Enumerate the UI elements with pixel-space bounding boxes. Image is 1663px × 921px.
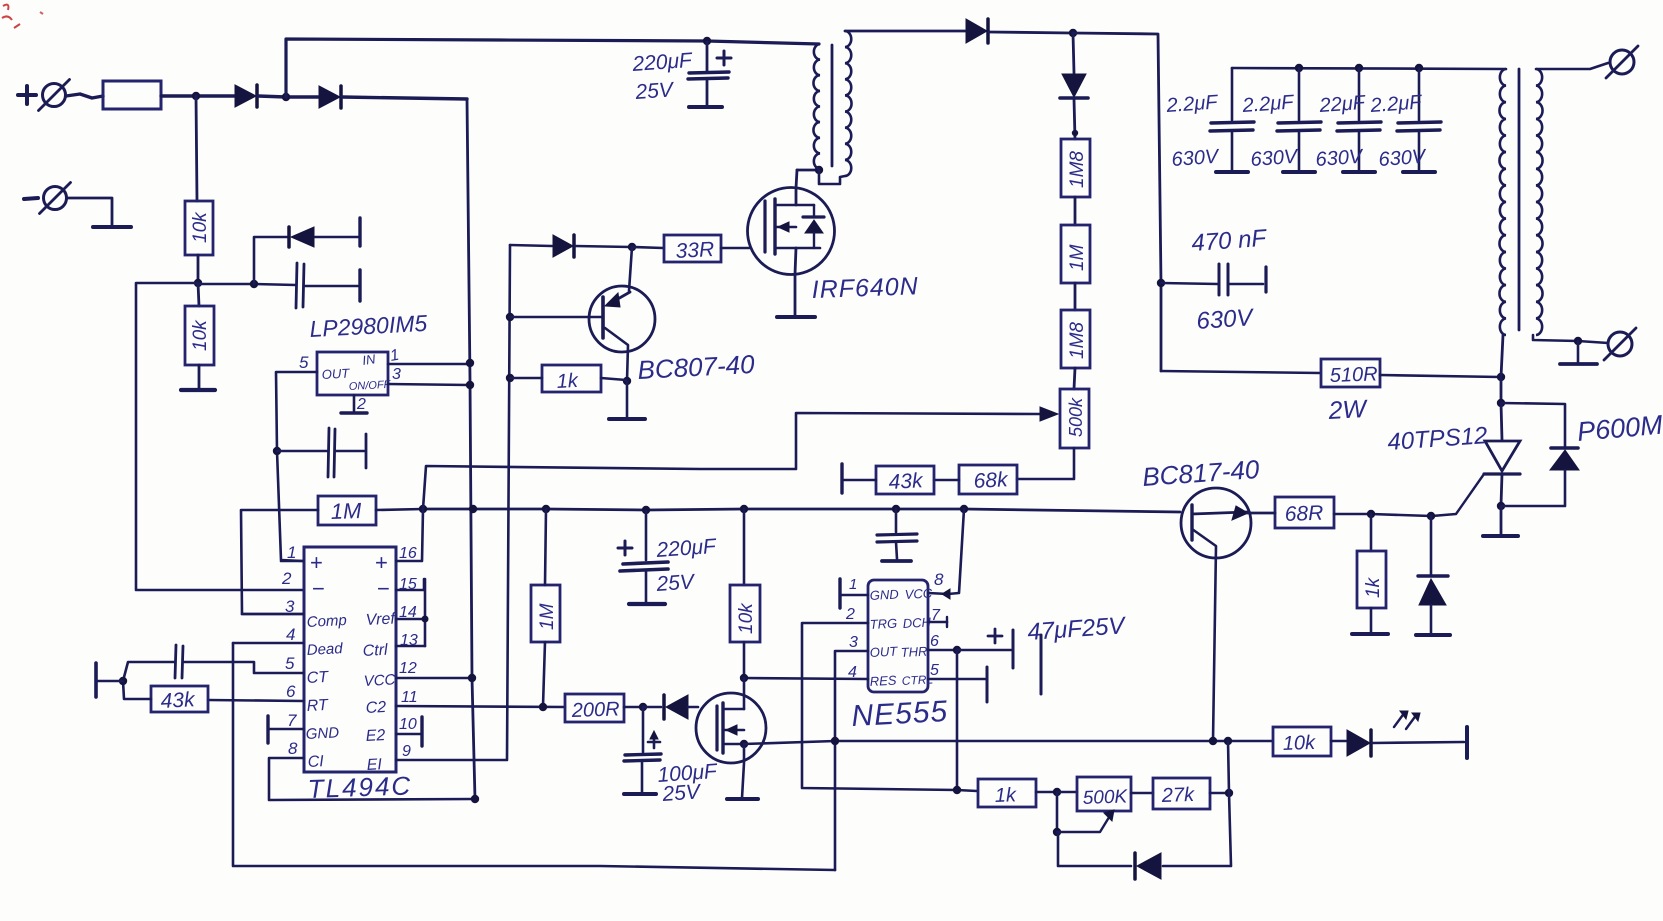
svg-text:VCC: VCC — [363, 671, 396, 690]
svg-text:10k: 10k — [190, 319, 211, 351]
svg-text:5: 5 — [299, 353, 309, 372]
svg-text:43k: 43k — [888, 469, 925, 494]
svg-text:10: 10 — [399, 716, 417, 733]
svg-text:500K: 500K — [1082, 786, 1128, 809]
svg-text:220μF: 220μF — [655, 535, 718, 562]
svg-text:470 nF: 470 nF — [1191, 225, 1269, 257]
svg-text:Dead: Dead — [306, 640, 343, 659]
svg-text:CI: CI — [307, 753, 324, 771]
svg-text:5: 5 — [285, 654, 295, 673]
svg-text:2: 2 — [356, 396, 366, 413]
svg-text:11: 11 — [401, 689, 418, 706]
svg-text:3: 3 — [392, 366, 401, 383]
svg-text:25V: 25V — [655, 570, 697, 596]
svg-text:630V: 630V — [1315, 146, 1365, 171]
svg-text:−: − — [312, 576, 325, 601]
svg-text:2.2μF: 2.2μF — [1165, 91, 1220, 117]
svg-text:CT: CT — [306, 669, 329, 687]
svg-text:25V: 25V — [661, 780, 703, 806]
svg-text:E2: E2 — [365, 727, 386, 745]
svg-text:1M8: 1M8 — [1067, 322, 1088, 359]
svg-text:6: 6 — [930, 633, 939, 650]
svg-text:2W: 2W — [1327, 395, 1369, 425]
svg-text:1k: 1k — [556, 370, 579, 393]
svg-text:IRF640N: IRF640N — [811, 272, 919, 304]
svg-text:TRG: TRG — [869, 616, 897, 632]
svg-text:OUT: OUT — [321, 366, 350, 382]
svg-text:1: 1 — [287, 543, 296, 562]
svg-text:GND: GND — [869, 587, 899, 603]
svg-text:15: 15 — [399, 576, 417, 593]
svg-text:12: 12 — [399, 660, 417, 677]
svg-text:630V: 630V — [1378, 146, 1428, 171]
svg-text:25V: 25V — [634, 78, 676, 104]
svg-text:220μF: 220μF — [631, 49, 694, 76]
svg-text:ON/OFF: ON/OFF — [349, 379, 392, 393]
svg-text:Ctrl: Ctrl — [362, 642, 388, 660]
svg-text:43k: 43k — [160, 688, 197, 713]
svg-text:OUT: OUT — [869, 644, 898, 660]
svg-text:33R: 33R — [675, 238, 715, 263]
svg-text:BC807-40: BC807-40 — [637, 349, 756, 385]
svg-text:510R: 510R — [1329, 363, 1378, 387]
svg-text:+: + — [375, 550, 388, 575]
svg-text:RT: RT — [306, 697, 329, 715]
svg-text:68R: 68R — [1284, 502, 1323, 526]
svg-text:8: 8 — [934, 570, 944, 589]
svg-text:13: 13 — [400, 632, 418, 649]
svg-text:500k: 500k — [1066, 397, 1086, 437]
svg-text:2.2μF: 2.2μF — [1369, 91, 1424, 117]
svg-text:THR: THR — [900, 644, 927, 660]
svg-text:1M8: 1M8 — [1067, 151, 1088, 188]
svg-text:7: 7 — [287, 711, 297, 730]
svg-text:3: 3 — [849, 634, 858, 651]
svg-text:630V: 630V — [1250, 146, 1300, 171]
svg-text:22μF: 22μF — [1318, 92, 1368, 117]
svg-text:NE555: NE555 — [851, 695, 949, 733]
svg-text:6: 6 — [286, 682, 296, 701]
svg-text:9: 9 — [402, 743, 411, 760]
svg-text:68k: 68k — [973, 468, 1010, 493]
svg-text:1k: 1k — [1363, 576, 1384, 598]
svg-text:GND: GND — [305, 724, 339, 743]
svg-text:Vref: Vref — [365, 610, 396, 629]
svg-text:2: 2 — [281, 569, 292, 588]
svg-text:+: + — [310, 550, 323, 575]
svg-text:RES: RES — [869, 673, 897, 689]
svg-text:3: 3 — [285, 597, 295, 616]
svg-text:5: 5 — [930, 662, 939, 679]
svg-text:1M: 1M — [1067, 244, 1088, 271]
svg-text:1: 1 — [849, 576, 857, 593]
svg-text:10k: 10k — [1282, 732, 1316, 755]
svg-text:630V: 630V — [1196, 304, 1256, 335]
svg-text:1M: 1M — [330, 498, 362, 524]
svg-text:4: 4 — [286, 625, 295, 644]
svg-text:630V: 630V — [1171, 146, 1221, 171]
svg-text:1M: 1M — [537, 603, 558, 630]
svg-text:2.2μF: 2.2μF — [1241, 91, 1296, 117]
svg-text:TL494C: TL494C — [307, 770, 412, 804]
svg-text:10k: 10k — [736, 602, 757, 634]
svg-text:Comp: Comp — [306, 612, 347, 631]
svg-text:14: 14 — [399, 604, 417, 621]
svg-text:16: 16 — [399, 545, 417, 562]
svg-text:27k: 27k — [1160, 784, 1195, 807]
svg-text:10k: 10k — [190, 211, 211, 243]
svg-text:1k: 1k — [994, 784, 1017, 807]
svg-text:C2: C2 — [365, 699, 386, 717]
svg-text:2: 2 — [845, 606, 855, 623]
svg-text:−: − — [377, 576, 390, 601]
svg-text:200R: 200R — [570, 698, 620, 722]
svg-text:8: 8 — [288, 739, 298, 758]
